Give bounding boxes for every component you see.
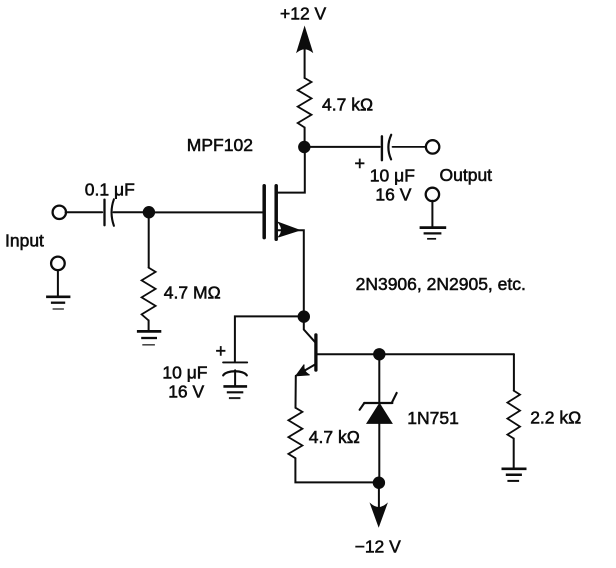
svg-text:4.7 kΩ: 4.7 kΩ [322, 95, 373, 115]
wire source node to C3 branch [235, 316, 304, 362]
transistor Q1 collector lead [304, 317, 316, 343]
wire R1 to drain node [304, 128, 306, 148]
capacitor C1 0.1 uF [105, 199, 114, 226]
wire R3 to -12V node [295, 458, 374, 482]
svg-text:4.7 kΩ: 4.7 kΩ [309, 427, 360, 447]
resistor R1 4.7 kOhm (top) [298, 78, 312, 128]
wire emitter to R3 [295, 376, 297, 408]
svg-text:Input: Input [5, 230, 44, 250]
svg-text:+: + [216, 341, 227, 361]
wire input ground [57, 270, 59, 297]
svg-text:10 μF: 10 μF [370, 166, 415, 186]
node drain junction [298, 141, 310, 153]
svg-text:−12 V: −12 V [355, 537, 402, 557]
capacitor C3 10uF bypass [223, 362, 247, 386]
svg-text:Output: Output [440, 165, 493, 185]
ground (R4) [502, 469, 527, 481]
ground (output) [420, 228, 447, 239]
svg-text:MPF102: MPF102 [187, 135, 253, 155]
transistor Q1 base bar [314, 335, 317, 370]
input terminal [53, 206, 66, 219]
JFET U1 source arrow [278, 222, 299, 237]
wire input terminal to C1 [66, 211, 103, 213]
wire R2 to ground [148, 320, 150, 331]
svg-text:16 V: 16 V [168, 381, 204, 401]
wire drain node to C2 [304, 146, 380, 148]
svg-text:+: + [355, 154, 366, 174]
wire gate [149, 211, 263, 213]
node source junction [298, 310, 310, 322]
svg-text:0.1 μF: 0.1 μF [85, 180, 135, 200]
power -12V arrow [371, 483, 387, 527]
transistor Q1 emitter lead [297, 365, 315, 375]
wire output ground [431, 201, 433, 228]
svg-text:2N3906, 2N2905, etc.: 2N3906, 2N2905, etc. [356, 274, 526, 294]
output ground reference terminal [426, 188, 439, 201]
JFET U1 MPF102 gate bar [262, 186, 266, 238]
transistor Q1 emitter arrow [296, 365, 310, 376]
wire gate node to R2 [148, 212, 150, 267]
wire base to zener node [316, 353, 514, 355]
wire zener to -12V node [378, 423, 380, 478]
ground (R2) [137, 331, 161, 344]
svg-text:1N751: 1N751 [407, 408, 459, 428]
svg-text:4.7 MΩ: 4.7 MΩ [164, 283, 221, 303]
node gate junction [143, 206, 155, 218]
node base junction [373, 348, 385, 360]
wire base node to zener [378, 354, 380, 402]
input ground reference terminal [51, 257, 65, 271]
JFET U1 drain lead [278, 148, 305, 193]
wire R4 to ground [513, 439, 515, 469]
svg-text:10 μF: 10 μF [162, 362, 207, 382]
capacitor C2 10uF output coupling [382, 135, 391, 160]
node -12V junction [373, 477, 385, 489]
JFET U1 source lead [278, 230, 304, 315]
JFET U1 channel bar [274, 186, 278, 239]
svg-text:+12 V: +12 V [280, 4, 327, 24]
zener diode D1 anode triangle [367, 404, 392, 424]
svg-text:16 V: 16 V [375, 184, 411, 204]
ground (input) [46, 297, 70, 309]
output terminal [426, 140, 439, 153]
svg-text:2.2 kΩ: 2.2 kΩ [530, 407, 581, 427]
wire C2 to output terminal [393, 146, 427, 148]
resistor R3 4.7 kOhm (emitter) [288, 408, 302, 459]
wire C1 to gate node [114, 211, 145, 213]
power +12V arrow [297, 27, 312, 78]
resistor R4 2.2 kOhm [507, 391, 520, 439]
resistor R2 4.7 MOhm [142, 268, 156, 321]
ground (C3) [223, 386, 247, 398]
wire base node to R4 [513, 354, 515, 390]
zener diode D1 1N751 cathode bar [360, 393, 397, 410]
